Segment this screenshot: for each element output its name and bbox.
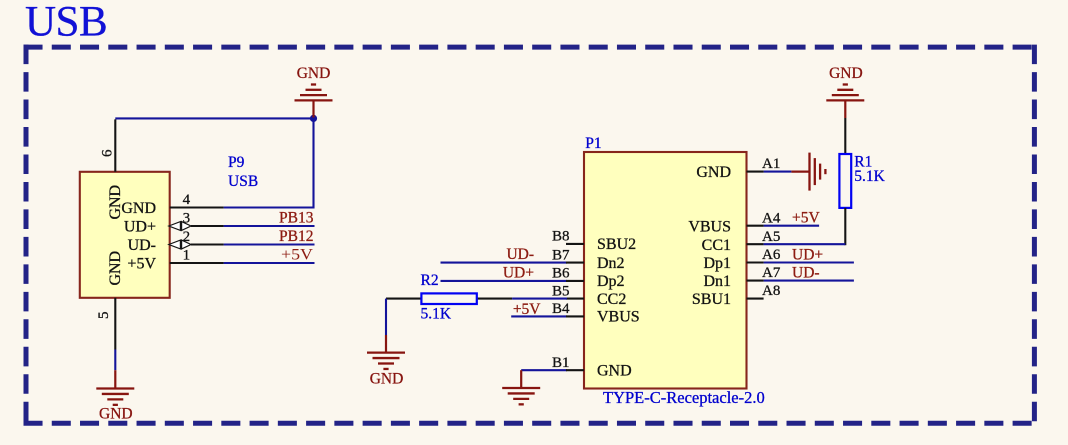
svg-text:1: 1 (183, 248, 191, 264)
svg-text:VBUS: VBUS (597, 309, 640, 326)
svg-text:USB: USB (228, 173, 258, 190)
svg-text:Dp1: Dp1 (703, 255, 731, 272)
svg-text:GND: GND (370, 371, 404, 388)
svg-text:GND: GND (107, 251, 124, 286)
svg-text:+5V: +5V (513, 301, 541, 318)
svg-text:USB: USB (25, 0, 107, 46)
svg-text:UD-: UD- (128, 237, 156, 254)
svg-text:B7: B7 (552, 247, 570, 263)
svg-text:A4: A4 (762, 210, 781, 226)
svg-text:GND: GND (696, 164, 731, 181)
svg-text:A6: A6 (762, 247, 781, 263)
svg-text:GND: GND (99, 406, 133, 423)
svg-text:PB12: PB12 (279, 228, 313, 245)
svg-text:P9: P9 (228, 154, 245, 171)
svg-text:CC2: CC2 (597, 291, 626, 308)
svg-text:PB13: PB13 (279, 210, 314, 227)
svg-text:+5V: +5V (792, 210, 820, 227)
svg-text:CC1: CC1 (702, 237, 731, 254)
svg-text:VBUS: VBUS (688, 218, 731, 235)
svg-text:4: 4 (183, 192, 191, 208)
svg-text:5: 5 (96, 311, 112, 319)
svg-text:SBU2: SBU2 (597, 236, 636, 253)
svg-text:5.1K: 5.1K (421, 305, 452, 322)
svg-text:TYPE-C-Receptacle-2.0: TYPE-C-Receptacle-2.0 (603, 388, 765, 407)
svg-text:A7: A7 (762, 265, 781, 281)
svg-text:UD+: UD+ (124, 218, 156, 235)
svg-text:Dn2: Dn2 (597, 255, 625, 272)
svg-text:GND: GND (597, 363, 632, 380)
svg-text:A8: A8 (762, 283, 780, 299)
svg-text:GND: GND (121, 200, 156, 217)
svg-text:B1: B1 (552, 355, 570, 371)
svg-text:UD+: UD+ (503, 264, 534, 281)
svg-text:+5V: +5V (127, 255, 156, 272)
svg-text:B6: B6 (552, 266, 570, 282)
svg-text:B5: B5 (552, 283, 570, 299)
svg-text:3: 3 (183, 211, 191, 227)
svg-text:UD-: UD- (506, 246, 534, 263)
svg-text:GND: GND (829, 65, 863, 82)
svg-text:+5V: +5V (281, 247, 314, 264)
svg-text:A1: A1 (762, 156, 780, 172)
svg-text:P1: P1 (585, 135, 601, 152)
svg-text:UD+: UD+ (792, 247, 823, 264)
svg-text:R2: R2 (421, 272, 439, 289)
svg-text:GND: GND (297, 65, 331, 82)
svg-text:UD-: UD- (792, 265, 820, 282)
svg-text:B4: B4 (552, 301, 570, 317)
svg-text:A5: A5 (762, 229, 780, 245)
svg-text:SBU1: SBU1 (692, 291, 731, 308)
svg-text:5.1K: 5.1K (854, 168, 885, 185)
svg-text:Dp2: Dp2 (597, 273, 625, 290)
svg-text:6: 6 (99, 149, 115, 157)
svg-text:Dn1: Dn1 (703, 273, 731, 290)
svg-text:B8: B8 (552, 229, 570, 245)
svg-text:2: 2 (183, 229, 191, 245)
